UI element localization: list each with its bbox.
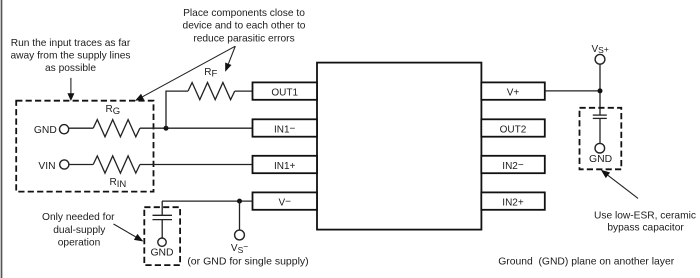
junction node VS+ [598, 88, 603, 93]
svg-text:RF: RF [204, 67, 217, 80]
pin OUT2 [481, 119, 545, 136]
resistor RG [93, 104, 140, 137]
note: only needed for dual-supply [42, 212, 115, 248]
svg-text:Only needed for: Only needed for [42, 212, 115, 223]
svg-text:IN1+: IN1+ [274, 161, 296, 172]
svg-text:IN2−: IN2− [502, 160, 524, 172]
svg-text:Run the input traces as far: Run the input traces as far [11, 38, 131, 49]
pin V- [253, 192, 318, 209]
ground terminal dual-supply cap [150, 238, 173, 259]
svg-text:V−: V− [278, 197, 291, 209]
bypass dashed box [580, 108, 622, 170]
terminal VS+ [592, 44, 609, 64]
svg-text:VS+: VS+ [592, 44, 609, 55]
wire VIN to RIN [69, 164, 93, 166]
dual-supply dashed box [144, 207, 180, 265]
pin IN1- [253, 119, 318, 136]
terminal VS- [231, 230, 248, 255]
svg-text:GND: GND [34, 125, 57, 136]
terminal VIN [38, 160, 68, 172]
annotation arrow to RF [225, 46, 235, 72]
terminal GND input [34, 125, 69, 136]
wire GND to RG [69, 127, 94, 129]
input network dashed box [16, 101, 153, 192]
junction node inverting input [164, 126, 169, 131]
pin OUT1 [253, 82, 318, 99]
svg-text:RG: RG [106, 104, 121, 117]
svg-text:bypass capacitor: bypass capacitor [607, 222, 684, 233]
svg-text:RIN: RIN [110, 177, 127, 190]
wire V+ to VS+ [545, 90, 600, 92]
note: run the input traces [10, 38, 130, 74]
annotation arrow to bypass box [601, 170, 638, 199]
junction node VS- [237, 199, 242, 204]
ground terminal bypass cap [589, 143, 612, 165]
svg-text:away from the supply lines: away from the supply lines [10, 51, 130, 62]
svg-text:VIN: VIN [38, 161, 55, 172]
svg-text:operation: operation [58, 238, 100, 249]
svg-text:dual-supply: dual-supply [53, 225, 106, 236]
svg-text:GND: GND [589, 154, 612, 165]
svg-text:Use low-ESR, ceramic: Use low-ESR, ceramic [594, 210, 696, 221]
svg-text:IN1−: IN1− [274, 124, 296, 136]
svg-text:reduce parasitic errors: reduce parasitic errors [193, 33, 294, 44]
pin IN2- [481, 156, 545, 173]
resistor RF [188, 67, 235, 100]
svg-text:(or GND for single supply): (or GND for single supply) [187, 255, 308, 267]
pin V+ [481, 82, 545, 99]
wire RG to IN1- [140, 127, 253, 129]
wire feedback branch [166, 91, 188, 128]
svg-text:V+: V+ [507, 88, 520, 99]
annotation arrow down to input network box [67, 78, 74, 101]
svg-text:as possible: as possible [45, 63, 96, 74]
note: use low-ESR ceramic bypass capacitor [594, 210, 696, 233]
svg-text:device and to each other to: device and to each other to [183, 21, 306, 32]
wire RIN to IN1+ [140, 164, 253, 166]
op-amp IC body U1 [317, 63, 481, 230]
svg-text:OUT2: OUT2 [500, 124, 527, 135]
figure frame left border [1, 0, 3, 278]
capacitor C2 bypass [593, 115, 607, 143]
svg-text:Place components close to: Place components close to [183, 8, 305, 19]
pin IN2+ [481, 192, 545, 209]
wire junction to VS- terminal [239, 201, 241, 230]
note: place components close to device [183, 8, 306, 44]
annotation arrow to dual-supply box [114, 224, 144, 242]
pin IN1+ [253, 156, 318, 173]
resistor RIN [93, 156, 140, 190]
annotation arrow to input network box [135, 46, 235, 101]
svg-text:GND: GND [150, 248, 173, 259]
wire RF to OUT1 [235, 90, 253, 92]
svg-text:OUT1: OUT1 [271, 88, 298, 99]
svg-text:VS−: VS− [231, 242, 248, 255]
wire V- to supply node [162, 200, 253, 202]
svg-text:Ground (GND) plane on another: Ground (GND) plane on another layer [498, 257, 674, 268]
svg-text:IN2+: IN2+ [502, 198, 524, 209]
wire VS+ vertical [599, 64, 601, 115]
capacitor C1 dual-supply [153, 201, 173, 238]
